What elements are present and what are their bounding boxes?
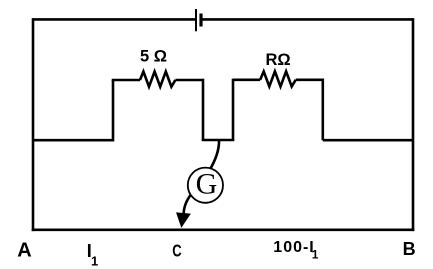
svg-text:1: 1	[91, 253, 98, 268]
svg-text:C: C	[172, 240, 182, 260]
wire from 5 ohm to node D	[175, 79, 203, 82]
wire lead into 5 ohm resistor	[112, 79, 140, 82]
wire from R ohm to right arm	[296, 79, 323, 82]
resistor R ohm zigzag	[260, 71, 296, 86]
wire node D U-link left vertical	[202, 79, 205, 140]
wire top-right (battery right lead)	[202, 18, 413, 21]
wire top-left (battery left lead)	[33, 18, 195, 21]
galvanometer G circle	[188, 168, 223, 203]
wire node D U-link bottom	[202, 139, 235, 142]
svg-text:100-: 100-	[273, 239, 309, 256]
svg-text:1: 1	[312, 247, 319, 261]
wire bottom (slide wire A to B)	[32, 229, 415, 232]
wire node D U-link right vertical	[232, 79, 235, 140]
svg-text:A: A	[17, 240, 31, 262]
battery B1 long plate (positive)	[195, 9, 197, 31]
arrowhead jockey at C	[177, 213, 190, 226]
wire lead into R ohm resistor	[233, 79, 260, 82]
wire left middle rail from A	[33, 139, 113, 142]
wire right side (node B vertical)	[412, 18, 415, 231]
wire left side (node A vertical)	[32, 18, 35, 231]
wire right arm vertical	[321, 79, 324, 141]
battery B1 short plate (negative)	[199, 14, 202, 27]
wire galvanometer curve from node D to jockey	[184, 140, 219, 214]
svg-text:RΩ: RΩ	[266, 51, 291, 69]
svg-text:5 Ω: 5 Ω	[140, 48, 167, 66]
svg-text:G: G	[196, 168, 218, 201]
resistor 5 ohm zigzag	[140, 72, 175, 87]
svg-text:B: B	[403, 239, 416, 259]
wire left arm vertical	[112, 80, 115, 142]
wire right middle rail to B	[323, 139, 413, 142]
